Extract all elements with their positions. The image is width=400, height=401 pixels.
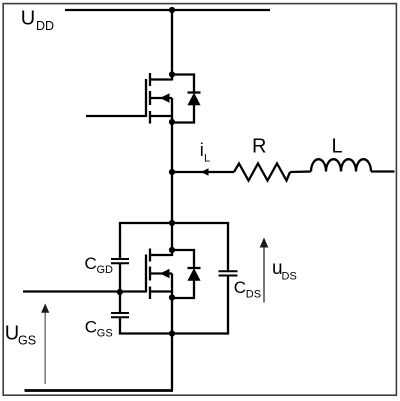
svg-text:GD: GD <box>97 264 114 276</box>
wire: T2 gate lead from left <box>23 290 146 292</box>
wire: R to L <box>290 170 311 173</box>
diode D1 (body diode of T1) <box>172 75 201 123</box>
svg-text:DD: DD <box>36 19 54 33</box>
wire: L to right edge <box>371 170 395 172</box>
wire: capacitor box bottom <box>120 276 228 334</box>
transistor T1 (upper MOSFET) <box>146 73 172 124</box>
resistor R <box>234 164 290 181</box>
node: T1 source <box>169 119 175 125</box>
wire: CGD to gate line <box>119 263 121 292</box>
capacitor CGD <box>111 259 129 263</box>
wire: capacitor box top <box>120 223 228 271</box>
node: T2 drain <box>169 247 175 253</box>
svg-text:DS: DS <box>246 288 261 300</box>
capacitor CDS <box>219 271 238 275</box>
wire: T1 gate lead <box>86 115 146 117</box>
wire: T1 source down to load branch <box>171 122 173 223</box>
node: capacitor box top junction <box>169 220 175 226</box>
svg-text:C: C <box>85 318 97 337</box>
transistor T2 (lower MOSFET) <box>146 249 172 300</box>
wire: rail down to T1 drain <box>171 10 173 81</box>
svg-text:C: C <box>85 254 97 273</box>
current arrow iL <box>201 168 209 176</box>
capacitor CGS <box>111 313 129 317</box>
wire: top supply rail UDD <box>65 9 270 11</box>
node: load branch junction <box>169 169 175 175</box>
wire: T2 source down to bottom rail <box>171 298 173 391</box>
node: gate line junction <box>117 289 123 295</box>
svg-text:U: U <box>21 8 35 30</box>
voltage arrow UGS <box>41 304 49 385</box>
wire: box top to T2 drain <box>171 223 173 256</box>
diode D2 (body diode of T2) <box>172 250 201 298</box>
svg-text:GS: GS <box>97 327 113 339</box>
wire: load branch horizontal <box>172 171 234 173</box>
node: T1 drain <box>169 71 175 77</box>
svg-text:L: L <box>204 153 210 165</box>
voltage arrow uDS <box>260 238 269 303</box>
wire: gate line to CGS <box>119 292 121 313</box>
svg-text:L: L <box>332 135 343 157</box>
svg-text:GS: GS <box>18 334 36 348</box>
wire: bottom rail <box>25 389 174 392</box>
inductor L <box>311 159 371 171</box>
node: rail to T1 drain junction <box>169 7 175 13</box>
svg-text:R: R <box>252 135 266 157</box>
svg-text:C: C <box>234 278 246 297</box>
node: capacitor box bottom junction <box>169 330 175 336</box>
node: T2 source <box>169 294 175 300</box>
svg-text:DS: DS <box>282 271 297 283</box>
